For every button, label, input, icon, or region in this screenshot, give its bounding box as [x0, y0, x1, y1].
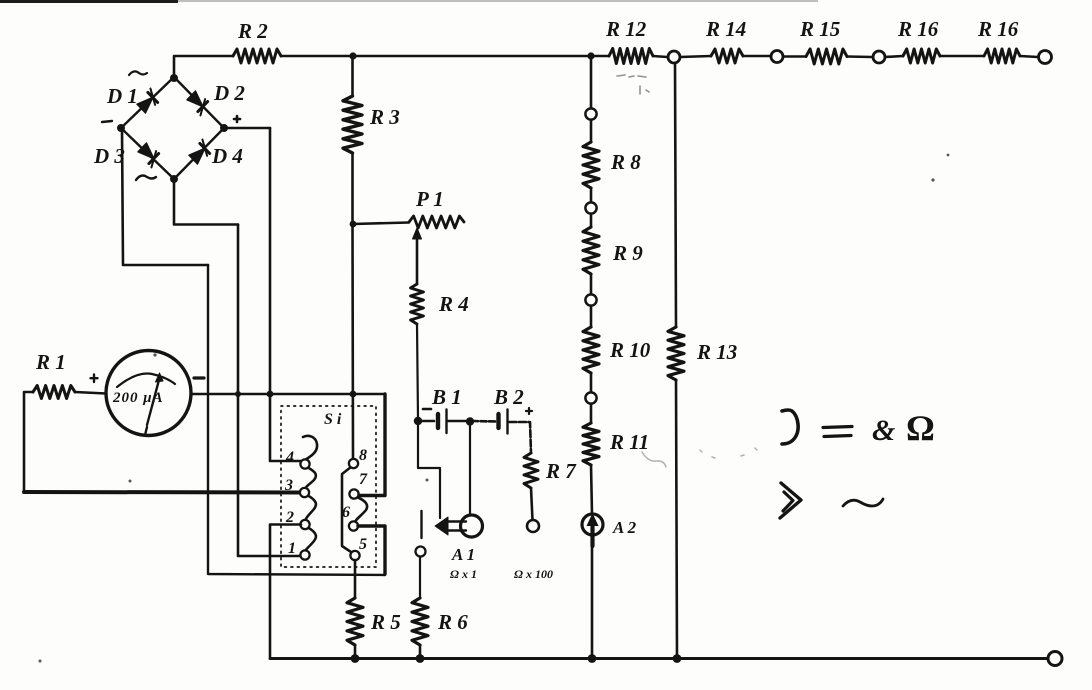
wire R16b to end terminal: [1020, 56, 1038, 57]
switch link 4-3: [305, 467, 316, 489]
switch contact 4 hook: [303, 436, 317, 460]
resistor R3: [343, 96, 362, 153]
plus mark right vertex: [234, 116, 240, 122]
meter scale arc: [117, 374, 175, 387]
scan speck bottom left: [39, 660, 42, 663]
resistor R7: [524, 453, 538, 488]
wire R10 to node: [590, 373, 593, 393]
node rail A2: [588, 654, 597, 663]
svg-text:Ω: Ω: [906, 408, 935, 448]
resistor R6: [412, 598, 428, 645]
meter needle arrowhead: [156, 373, 164, 382]
wire R15 to terminal: [847, 55, 872, 58]
wire terminal to R13: [675, 63, 676, 327]
wire top rail middle: [281, 55, 609, 58]
svg-text:D 1: D 1: [106, 84, 138, 108]
svg-text:D 4: D 4: [211, 144, 243, 168]
terminal circle 2: [771, 51, 783, 63]
node rail R6: [416, 654, 425, 663]
ac tilde bottom: [136, 176, 156, 180]
potentiometer P1: [409, 216, 464, 228]
wire terminal to R14: [680, 56, 711, 57]
svg-text:4: 4: [285, 449, 294, 466]
resistor R16 (second): [984, 49, 1020, 63]
wire A2 to rail: [591, 546, 594, 658]
scan noise under R12: [617, 75, 649, 94]
wire bridge bottom vertical to contact 1: [238, 225, 301, 557]
diode D4: [188, 140, 213, 165]
resistor R10: [583, 327, 599, 373]
diode D2: [186, 90, 211, 115]
terminal circle 3: [873, 51, 885, 63]
node bridge left vertex: [117, 124, 125, 132]
wire R12 to terminal: [653, 56, 667, 57]
switch contact 5: [350, 551, 359, 560]
svg-text:R 8: R 8: [610, 150, 641, 174]
wire R3 to contact 8: [351, 153, 354, 460]
P1 wiper arrow: [413, 228, 422, 239]
svg-text:R 1: R 1: [35, 350, 66, 374]
plug A1 arrow body: [447, 522, 466, 531]
minus mark left vertex: [102, 121, 112, 122]
switch contact 4: [300, 459, 309, 468]
node circle above R8: [585, 108, 596, 119]
wire R4 to battery node: [417, 324, 418, 419]
switch S1 dashed enclosure: [281, 406, 376, 567]
node meter wire x238: [235, 391, 241, 397]
svg-text:Ω x 100: Ω x 100: [514, 567, 553, 581]
svg-text:7: 7: [359, 471, 368, 488]
svg-text:6: 6: [342, 504, 350, 521]
wire R8 to node: [590, 188, 593, 203]
svg-text:B 2: B 2: [493, 385, 524, 409]
scan speck near legend: [947, 154, 950, 157]
wire top rail to R8 chain: [590, 58, 593, 109]
battery B1: [438, 410, 447, 434]
battery B2: [499, 410, 508, 434]
wire node to B2: [472, 420, 496, 423]
svg-text:R 11: R 11: [609, 430, 649, 454]
legend contact symbol ac inner: [783, 492, 793, 511]
node bridge right vertex: [220, 124, 228, 132]
resistor R2: [233, 49, 281, 63]
wire R6 to rail: [419, 645, 422, 658]
wire contact 6 to right vertical: [358, 526, 385, 574]
plug A1 ring: [461, 515, 483, 537]
svg-text:R 10: R 10: [609, 338, 651, 362]
wire R7 to terminal: [531, 488, 533, 520]
wire P1 wiper to R4: [416, 238, 419, 284]
jack A1 socket stub: [420, 511, 422, 538]
wire to R10: [590, 306, 593, 327]
switch link 7-6: [355, 497, 367, 522]
switch link 2-1: [305, 527, 316, 551]
wire R3 top: [351, 58, 354, 96]
wire top rail left (bridge top to R2): [174, 56, 233, 78]
diode bridge arm wires: [121, 77, 224, 179]
diode D3: [137, 142, 162, 167]
scan speck lower left: [129, 480, 132, 483]
switch contact 1: [300, 550, 309, 559]
node battery mid junction: [466, 417, 474, 425]
legend ac tilde: [843, 499, 883, 506]
legend contact symbol ac outer: [780, 483, 801, 518]
svg-text:R 14: R 14: [705, 17, 746, 41]
resistor R14: [711, 49, 743, 63]
wire node to B1: [418, 420, 434, 423]
legend equals sign: [823, 427, 852, 437]
wire between R16s: [940, 55, 984, 58]
wire bridge right vertex to vertical: [226, 127, 270, 130]
svg-text:D 3: D 3: [93, 144, 125, 168]
jack A2 plug arrow: [590, 527, 594, 546]
terminal circle bottom right: [1048, 652, 1062, 666]
switch contact 2: [300, 520, 309, 529]
wire B1 to node: [448, 420, 468, 423]
node battery B1 left junction: [414, 417, 422, 425]
scan noise squiggle near R11: [642, 448, 757, 467]
svg-text:A 2: A 2: [612, 518, 637, 537]
svg-text:R 4: R 4: [438, 292, 469, 316]
scan speck mid left: [153, 353, 156, 356]
wire contact 5 down to R5: [354, 560, 357, 598]
wire B2 to R7: [510, 422, 532, 453]
switch contact 7: [349, 489, 358, 498]
svg-text:R 13: R 13: [696, 340, 737, 364]
jack A1 socket terminal: [416, 547, 426, 557]
node circle R9/R10: [585, 294, 596, 305]
scan speck near top right: [931, 178, 934, 181]
resistor R4: [411, 284, 424, 324]
wire R1 loop to contact 3 (thick): [24, 490, 300, 495]
wire to R11: [590, 404, 593, 423]
switch contact 8: [349, 459, 358, 468]
resistor R13: [668, 327, 684, 380]
switch internal wire 8 to 5: [342, 467, 351, 552]
terminal circle 1: [668, 51, 680, 63]
resistor R16 (first): [903, 49, 940, 63]
node circle R10/R11: [585, 392, 596, 403]
svg-text:A 1: A 1: [451, 545, 475, 564]
terminal circle Ohm x100: [527, 520, 539, 532]
resistor R1: [33, 386, 75, 399]
wire meter line down to contact 7: [358, 394, 385, 496]
wire to R8: [590, 120, 593, 142]
switch contact 3: [300, 488, 309, 497]
svg-text:R 16: R 16: [977, 17, 1019, 41]
wire R5 to rail: [354, 645, 357, 658]
node rail R13: [673, 654, 682, 663]
svg-text:8: 8: [359, 447, 367, 464]
battery plus mark: [526, 408, 532, 414]
battery minus mark: [423, 408, 431, 411]
svg-text:5: 5: [359, 536, 367, 553]
svg-text:R 15: R 15: [799, 17, 840, 41]
svg-text:B 1: B 1: [431, 385, 462, 409]
node rail R5: [351, 654, 360, 663]
svg-text:R 3: R 3: [369, 105, 400, 129]
node bridge top vertex: [170, 74, 178, 82]
node junction P1 branch: [350, 221, 357, 228]
resistor R9: [583, 227, 599, 274]
resistor R11: [583, 423, 599, 465]
meter minus mark: [194, 376, 204, 379]
wire terminal to R15: [783, 55, 806, 58]
svg-text:P 1: P 1: [415, 187, 444, 211]
svg-text:R 5: R 5: [370, 610, 401, 634]
wire R14 to terminal: [743, 55, 771, 58]
svg-text:R 2: R 2: [237, 19, 268, 43]
svg-text:&: &: [872, 414, 895, 447]
resistor R15: [806, 49, 847, 64]
switch link 3-2: [305, 495, 316, 521]
node junction R12 left: [587, 52, 594, 59]
meter plus mark: [91, 375, 98, 383]
wire terminal to R16a: [885, 56, 903, 57]
wire ac left vertical to switch bottom: [208, 265, 385, 575]
meter needle: [147, 378, 160, 425]
scan edge artifact: [0, 0, 178, 3]
wire contact 2 to bottom rail: [270, 525, 301, 658]
svg-text:Ω x 1: Ω x 1: [450, 567, 477, 581]
wire R13 to rail: [676, 380, 677, 658]
terminal circle top right: [1039, 51, 1052, 64]
resistor R8: [583, 142, 599, 188]
switch contact 6: [349, 521, 358, 530]
svg-text:R 6: R 6: [437, 610, 468, 634]
wire B1 node down jog to plug: [418, 423, 440, 518]
wire bridge bottom down: [174, 181, 238, 225]
jack A2 ring: [582, 514, 603, 535]
wire socket to R6: [419, 557, 421, 599]
node meter wire x353: [350, 391, 357, 398]
svg-text:R 16: R 16: [897, 17, 939, 41]
scan speck near P dot: [426, 479, 429, 482]
resistor R12: [609, 49, 653, 64]
ac tilde top: [129, 71, 147, 75]
wire R11 to jack A2: [591, 465, 592, 514]
wire R1 left loop down: [24, 392, 33, 491]
node meter wire x270: [267, 391, 274, 398]
wire to R9: [590, 214, 593, 227]
resistor R5: [347, 598, 363, 645]
svg-text:1: 1: [288, 540, 296, 557]
legend contact symbol dc: [782, 410, 798, 444]
wire R1 to meter: [75, 392, 106, 394]
wire B2 mid node down to plug ring: [469, 423, 471, 514]
wire bridge left vertex down: [122, 130, 208, 265]
wire bridge right vertical to contact 4: [270, 128, 301, 461]
svg-text:D 2: D 2: [213, 81, 245, 105]
node junction R2/R3: [349, 52, 356, 59]
meter needle tail: [146, 427, 148, 433]
meter M1 body: [106, 351, 191, 436]
svg-text:R 7: R 7: [545, 459, 577, 483]
wire R9 to node: [590, 274, 593, 295]
svg-text:R 12: R 12: [605, 17, 647, 41]
diode D1: [136, 89, 161, 114]
svg-text:S i: S i: [324, 411, 342, 428]
node bridge bottom vertex: [170, 175, 178, 183]
bottom rail: [270, 657, 1048, 660]
svg-text:R 9: R 9: [612, 241, 643, 265]
svg-text:3: 3: [284, 477, 293, 494]
node circle R8/R9: [585, 202, 596, 213]
svg-text:200 μA: 200 μA: [112, 390, 164, 406]
wire P1 branch: [353, 223, 409, 225]
wire meter to switch vertical: [191, 393, 385, 396]
plug A1 arrow head: [435, 517, 448, 535]
